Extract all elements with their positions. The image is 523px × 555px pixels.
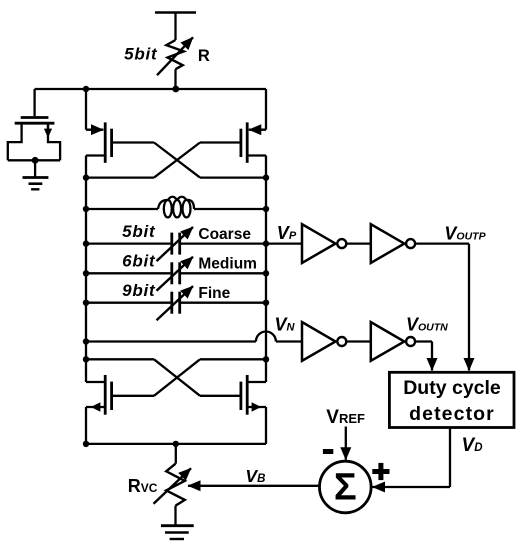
svg-text:5bit: 5bit (124, 45, 158, 64)
svg-text:VREF: VREF (326, 407, 365, 428)
svg-text:detector: detector (409, 403, 495, 425)
svg-text:VD: VD (462, 435, 483, 456)
svg-text:VOUTP: VOUTP (444, 224, 486, 244)
svg-text:VP: VP (277, 223, 297, 243)
svg-text:Duty cycle: Duty cycle (403, 377, 501, 399)
svg-text:Medium: Medium (198, 256, 257, 273)
svg-text:Coarse: Coarse (198, 226, 251, 243)
svg-text:Σ: Σ (334, 467, 357, 509)
svg-text:RVC: RVC (128, 476, 158, 496)
svg-text:6bit: 6bit (122, 252, 156, 271)
svg-text:R: R (198, 47, 210, 65)
svg-text:VN: VN (275, 315, 296, 335)
svg-text:VB: VB (245, 466, 265, 486)
svg-text:VOUTN: VOUTN (406, 315, 448, 335)
svg-text:Fine: Fine (198, 285, 230, 302)
svg-text:9bit: 9bit (122, 281, 156, 300)
svg-text:5bit: 5bit (122, 222, 156, 241)
